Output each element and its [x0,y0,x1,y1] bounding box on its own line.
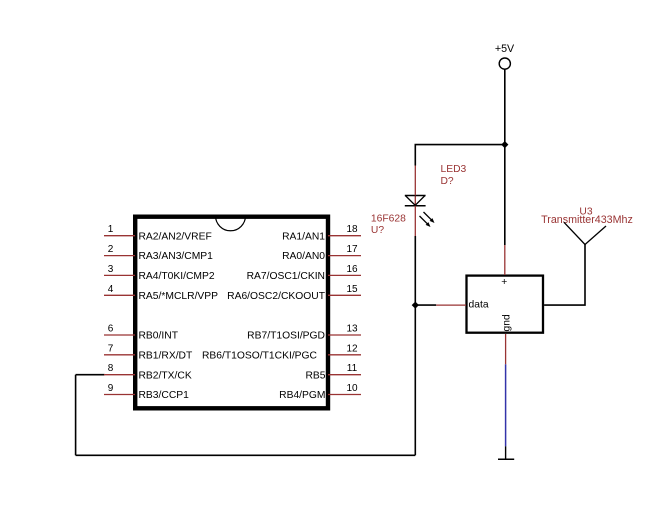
pin 2 RA3/AN3/CMP1 [104,244,213,262]
TX gnd pin [505,334,507,364]
LED emission arrow 1 [424,212,435,223]
wire bottom horizontal [76,454,416,456]
node junction at +5V rail [501,141,508,148]
svg-text:RB4/PGM: RB4/PGM [279,390,325,401]
pin 17 RA0/AN0 [282,244,361,262]
pin 4 RA5/*MCLR/VPP [104,284,218,302]
IC U1 16F628 body [135,217,328,409]
TX + pin [504,245,506,275]
svg-text:D?: D? [441,176,454,187]
pin 7 RB1/RX/DT [104,343,193,361]
svg-text:RA1/AN1: RA1/AN1 [282,231,325,242]
svg-text:1: 1 [108,224,114,235]
label 16F628 U? [371,214,406,236]
LED emission arrow 2 [420,216,431,227]
antenna symbol [564,222,606,244]
svg-text:RA3/AN3/CMP1: RA3/AN3/CMP1 [139,251,214,262]
wire +5V to junction [504,69,506,144]
svg-text:RB6/T1OSO/T1CKI/PGC: RB6/T1OSO/T1CKI/PGC [202,350,318,361]
svg-text:3: 3 [108,264,114,275]
svg-text:RA0/AN0: RA0/AN0 [282,251,325,262]
svg-text:RB7/T1OSI/PGD: RB7/T1OSI/PGD [247,331,325,342]
svg-text:+5V: +5V [495,43,515,55]
pin 3 RA4/T0KI/CMP2 [104,264,215,282]
svg-text:Transmitter433Mhz: Transmitter433Mhz [541,214,633,226]
wire to pin 8 [76,374,105,376]
TX data pin [436,304,466,306]
IC notch [216,216,246,231]
svg-text:RA5/*MCLR/VPP: RA5/*MCLR/VPP [139,291,219,302]
wire left riser [75,375,77,456]
pin 6 RB0/INT [104,324,179,342]
svg-text:RB0/INT: RB0/INT [139,331,179,342]
svg-text:10: 10 [346,383,358,394]
ground symbol [498,446,514,459]
svg-text:7: 7 [108,343,114,354]
svg-text:U?: U? [371,225,384,236]
transmitter module U3 box [467,276,544,333]
svg-text:16: 16 [346,264,358,275]
wire junction to LED corner [415,145,505,166]
svg-text:RB1/RX/DT: RB1/RX/DT [139,350,193,361]
svg-text:9: 9 [108,383,114,394]
svg-text:RB5: RB5 [305,370,325,381]
svg-text:LED3: LED3 [441,164,467,175]
label LED3 D? [441,164,467,187]
svg-text:8: 8 [108,363,114,374]
power +5V symbol [495,43,515,69]
svg-text:RA4/T0KI/CMP2: RA4/T0KI/CMP2 [139,271,215,282]
pin 11 RB5 [305,363,361,381]
svg-text:16F628: 16F628 [371,214,406,225]
LED D? symbol [405,196,426,206]
pin 15 RA6/OSC2/CKOOUT [227,284,361,302]
svg-text:data: data [469,300,489,311]
node junction at data net [412,302,419,309]
pin 16 RA7/OSC1/CKIN [247,264,361,282]
svg-text:11: 11 [347,363,358,374]
svg-text:RA2/AN2/VREF: RA2/AN2/VREF [139,231,212,242]
svg-text:4: 4 [108,284,114,295]
svg-text:6: 6 [108,324,114,335]
LED anode pin [414,166,416,196]
svg-text:gnd: gnd [502,314,513,331]
svg-text:2: 2 [108,244,114,255]
wire node to TX data pin [415,304,436,306]
svg-text:RA6/OSC2/CKOOUT: RA6/OSC2/CKOOUT [227,291,326,302]
pin 12 RB6/T1OSO/T1CKI/PGC [202,343,361,361]
svg-text:18: 18 [346,224,358,235]
svg-text:15: 15 [346,284,358,295]
svg-text:RB3/CCP1: RB3/CCP1 [139,390,190,401]
pin 13 RB7/T1OSI/PGD [247,324,361,342]
pin 10 RB4/PGM [279,383,361,401]
svg-text:13: 13 [346,324,358,335]
svg-text:+: + [501,277,507,288]
label U3 Transmitter433Mhz [541,206,633,226]
pin 1 RA2/AN2/VREF [104,224,212,242]
svg-text:RB2/TX/CK: RB2/TX/CK [139,370,192,381]
wire LED cathode down to bottom [414,236,416,455]
LED cathode pin [414,206,416,236]
pin 8 RB2/TX/CK [104,363,192,381]
svg-text:RA7/OSC1/CKIN: RA7/OSC1/CKIN [247,271,325,282]
svg-text:17: 17 [346,244,358,255]
pin 18 RA1/AN1 [282,224,361,242]
blue wire gnd net [505,364,507,446]
wire junction down to TX + pin [504,145,506,245]
wire TX right to antenna [544,245,585,306]
pin 9 RB3/CCP1 [104,383,189,401]
LED D? anode-to-cathode red pin through triangle [414,196,416,206]
svg-text:12: 12 [346,343,358,354]
